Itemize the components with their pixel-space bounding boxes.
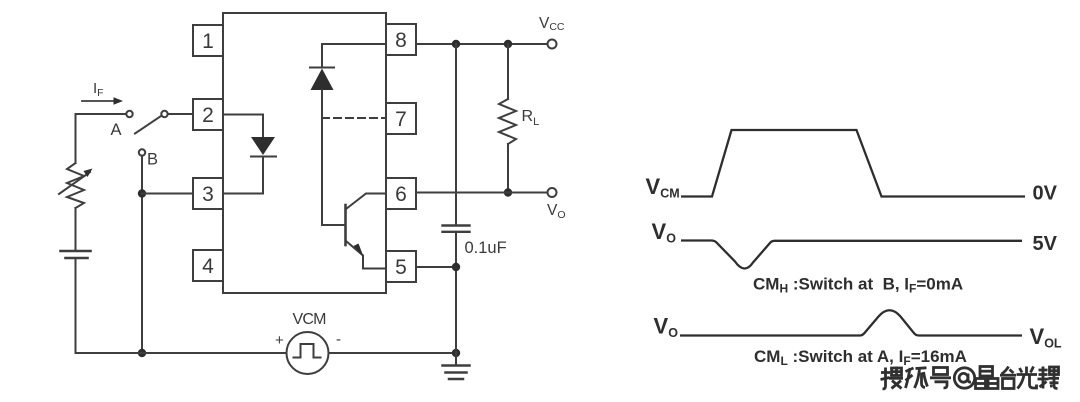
watermark char jing — [976, 367, 999, 389]
wire pin 6 to VO — [416, 192, 547, 194]
switch right terminal — [161, 111, 167, 117]
wire cap top — [455, 44, 457, 225]
svg-text:7: 7 — [395, 108, 407, 131]
IF current arrow — [82, 97, 123, 105]
watermark at-sign — [954, 368, 974, 388]
svg-text:B: B — [147, 151, 158, 169]
label VOL — [1030, 324, 1062, 351]
internal wire pin 8 to shield diode — [322, 44, 386, 67]
internal vertical wire to transistor base — [322, 90, 344, 225]
pin 1 — [193, 25, 223, 56]
svg-text:0V: 0V — [1033, 182, 1058, 204]
svg-text:6: 6 — [395, 183, 407, 206]
svg-text:2: 2 — [202, 104, 214, 127]
svg-text:1: 1 — [202, 30, 214, 53]
caption CMH — [753, 275, 963, 296]
label waveform VO low — [654, 314, 679, 341]
svg-text:+: + — [275, 332, 284, 349]
variable resistor R1 — [59, 163, 93, 208]
node RL bottom — [504, 188, 512, 196]
waveform VO bump — [680, 310, 1022, 335]
wire IF source to switch pole A — [76, 113, 127, 115]
node cap top — [452, 40, 460, 48]
label IF — [93, 80, 104, 99]
pin 2 — [193, 99, 223, 130]
label RL — [522, 108, 540, 128]
svg-text:3: 3 — [202, 183, 214, 206]
wire node to pin 3 — [142, 193, 193, 195]
bottom rail wire left — [76, 352, 287, 354]
transistor Q1 base bar — [344, 205, 347, 245]
label minus — [336, 331, 341, 348]
watermark char guang — [1017, 367, 1038, 389]
wire battery to bottom rail — [75, 258, 77, 353]
node RL top — [504, 40, 512, 48]
ground — [443, 353, 470, 379]
label plus — [275, 332, 284, 349]
transistor Q1 emitter with arrow — [346, 241, 386, 269]
LED D1 — [251, 137, 276, 157]
node at bottom rail — [138, 349, 146, 357]
svg-text:A: A — [111, 121, 122, 139]
watermark char tai — [1000, 367, 1016, 389]
watermark char hao — [930, 368, 951, 389]
wire RL bottom — [507, 144, 509, 193]
pin 7 — [386, 103, 416, 134]
pin 5 — [386, 251, 416, 282]
watermark souhu logo text — [881, 367, 1060, 390]
pin 4 — [193, 250, 223, 281]
label B — [147, 151, 158, 169]
capacitor C1 0.1uF — [443, 226, 470, 232]
shield diode D2 — [310, 68, 334, 91]
VCM pulse source V1 — [287, 332, 329, 374]
svg-text:4: 4 — [202, 255, 214, 278]
svg-text:8: 8 — [395, 29, 407, 52]
VCC terminal — [548, 40, 557, 49]
battery BT1 — [61, 251, 91, 258]
resistor RL — [499, 99, 516, 144]
left rail wire — [75, 114, 77, 163]
label VO — [547, 202, 566, 221]
wire RL top — [507, 44, 509, 99]
label 5V — [1033, 233, 1058, 255]
wire R1 to battery — [75, 208, 77, 251]
watermark char hu — [906, 368, 928, 388]
node at pin 3 wire — [138, 189, 146, 197]
waveform VCM trapezoid — [681, 130, 1025, 197]
transistor Q1 collector — [346, 194, 386, 210]
switch S1 blade — [135, 116, 161, 134]
wire pin 8 to VCC — [416, 43, 547, 45]
switch contact B terminal — [139, 149, 145, 155]
label VCM — [293, 311, 327, 328]
watermark char ou — [1038, 367, 1060, 389]
svg-text:VCM: VCM — [293, 311, 327, 328]
label 0V — [1033, 182, 1058, 204]
waveform VO dip — [681, 241, 1022, 269]
bottom rail wire right — [329, 352, 457, 354]
watermark char sou — [881, 367, 904, 390]
IC package body U1 — [223, 13, 386, 293]
switch contact A terminal — [126, 111, 132, 117]
node bottom right — [452, 349, 460, 357]
svg-text:0.1uF: 0.1uF — [465, 239, 507, 257]
wire cap bottom — [455, 232, 457, 353]
LED D1 anode wire from pin 2 — [223, 115, 263, 137]
label waveform VO high — [652, 219, 677, 246]
svg-text:5V: 5V — [1033, 233, 1058, 255]
caption CML — [754, 347, 967, 368]
wire B to pin3 node and bottom rail — [141, 156, 143, 353]
wire pin 5 to cap node — [416, 266, 456, 268]
wire switch to pin 2 — [168, 113, 193, 115]
pin 8 — [386, 24, 416, 55]
label waveform VCM — [646, 174, 680, 201]
pin 6 — [386, 178, 416, 209]
svg-text:5: 5 — [395, 256, 407, 279]
label 0.1uF — [465, 239, 507, 257]
label VCC — [539, 15, 565, 33]
svg-text:-: - — [336, 331, 341, 348]
node pin5 cap — [452, 263, 460, 271]
LED D1 cathode wire to pin 3 — [223, 157, 263, 194]
label A — [111, 121, 122, 139]
pin 3 — [193, 178, 223, 209]
dashed shield line to pin 7 — [322, 117, 386, 119]
VO terminal — [548, 188, 557, 197]
